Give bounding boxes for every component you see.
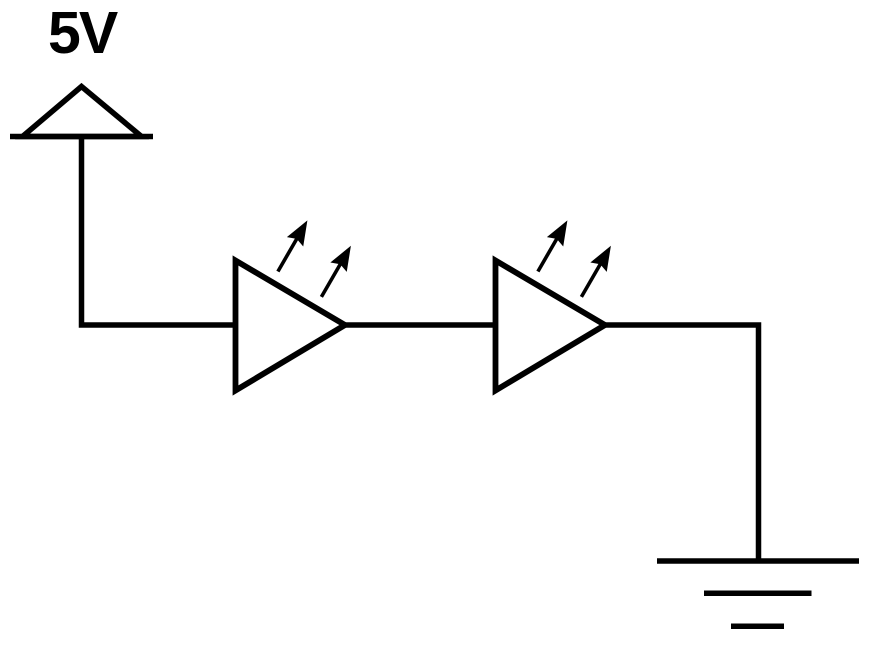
wire from LED D2 cathode right and down to ground — [605, 325, 759, 561]
wire from LED D1 cathode to LED D2 anode — [345, 322, 496, 328]
LED D1 light arrow 2 — [313, 241, 359, 302]
LED D2 — [496, 261, 606, 391]
LED D1 — [236, 261, 346, 391]
wire from 5V supply down and right to LED D1 anode — [82, 139, 237, 325]
ground — [657, 561, 859, 626]
LED D2 light arrow 1 — [530, 216, 576, 277]
LED D2 light arrow 2 — [573, 241, 619, 302]
LED D1 light arrow 1 — [270, 216, 316, 277]
svg-text:5V: 5V — [48, 0, 118, 66]
5V power supply symbol — [10, 87, 153, 137]
